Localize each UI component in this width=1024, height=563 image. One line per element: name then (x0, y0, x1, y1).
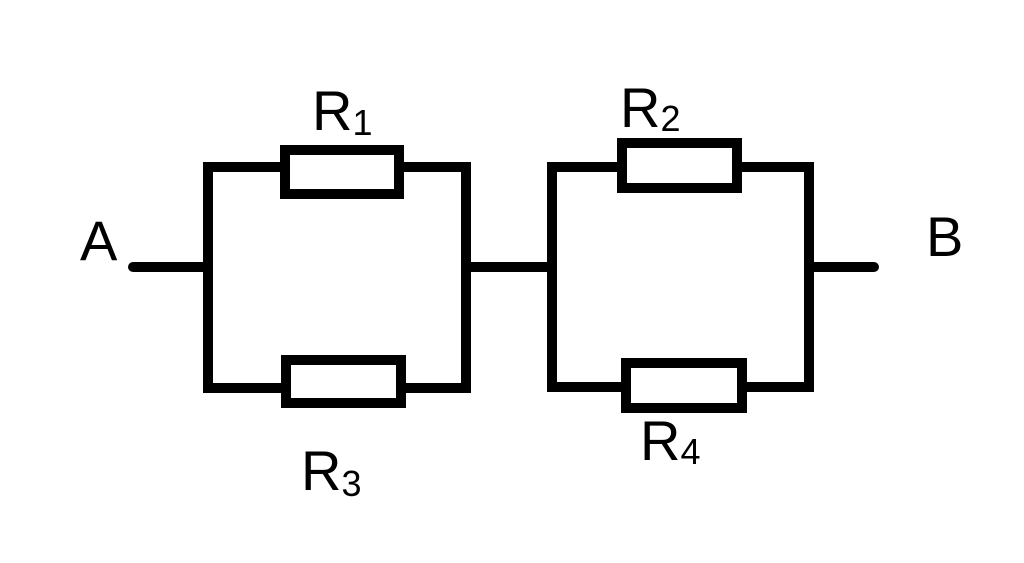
wire right vertical bus of left parallel block (461, 162, 471, 393)
wire top branch left segment (to R2) (547, 162, 622, 172)
wire top branch left segment (to R1) (203, 162, 285, 172)
resistor R1 (285, 150, 399, 194)
svg-text:R4: R4 (640, 409, 700, 472)
svg-text:R1: R1 (312, 79, 372, 143)
wire bottom branch right segment (from R3) (401, 383, 471, 393)
wire from node A to left parallel block (133, 262, 208, 272)
resistor R2 (622, 143, 737, 188)
wire left vertical bus of left parallel block (203, 162, 213, 393)
svg-text:R3: R3 (301, 439, 361, 504)
svg-text:R2: R2 (620, 76, 680, 139)
wire middle link between the two parallel blocks (461, 262, 557, 272)
wire bottom branch left segment (to R3) (203, 383, 286, 393)
wire right vertical bus of right parallel block (804, 162, 814, 392)
wire bottom branch right segment (from R4) (742, 382, 804, 392)
svg-text:B: B (926, 205, 963, 268)
svg-text:A: A (80, 209, 118, 272)
wire top branch right segment (from R2) (737, 162, 804, 172)
wire left vertical bus of right parallel block (547, 162, 557, 392)
wire bottom branch left segment (to R4) (547, 382, 626, 392)
wire from right parallel block to node B (810, 262, 874, 272)
resistor R3 (286, 360, 401, 403)
resistor R4 (626, 363, 742, 408)
wire top branch right segment (from R1) (399, 162, 471, 172)
